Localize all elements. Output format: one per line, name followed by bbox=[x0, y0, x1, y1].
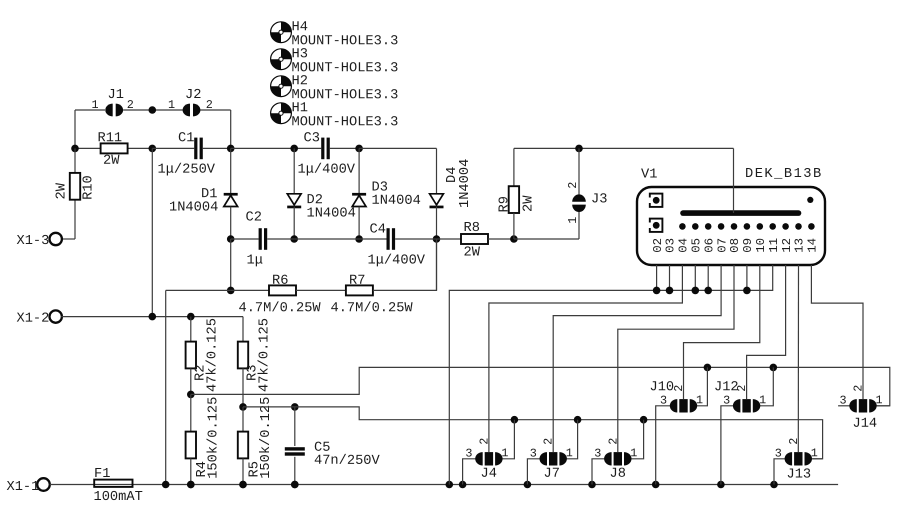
wire C1 to node bbox=[203, 147, 231, 149]
wire D3 node to C4 bbox=[359, 238, 386, 240]
label X1-3 bbox=[16, 234, 49, 249]
wire R2 bottom stub bbox=[190, 368, 192, 394]
junction bottom rail J7.3 bbox=[524, 481, 532, 489]
pin 2 of J7 bbox=[542, 438, 556, 445]
wire J8.1 riser bbox=[631, 420, 644, 459]
resistor R2 bbox=[186, 342, 196, 369]
pin 2 of J3 bbox=[566, 182, 580, 189]
wire pin 02 stub bbox=[656, 265, 658, 290]
solder jumper J10 bbox=[670, 399, 697, 412]
wire R4 bottom stub bbox=[190, 458, 192, 484]
wire J10.1 riser bbox=[697, 367, 708, 405]
wire J12.3 to bottom rail bbox=[721, 406, 734, 485]
resistor R6 bbox=[269, 285, 296, 295]
pin label 11 of V1 bbox=[767, 238, 781, 253]
junction J7.1 riser on lower rail bbox=[574, 416, 582, 424]
pin 3 of J14 bbox=[839, 394, 846, 408]
jumper J1 bbox=[105, 104, 123, 117]
wire pin 09 stub bbox=[746, 265, 748, 290]
label H2 bbox=[291, 74, 307, 89]
svg-text:2: 2 bbox=[542, 438, 556, 445]
svg-text:08: 08 bbox=[728, 238, 742, 253]
V1 common bar bbox=[683, 210, 799, 216]
wire D2 node to D3 node bbox=[294, 238, 359, 240]
wire D4 column upper bbox=[436, 148, 438, 193]
svg-text:100mAT: 100mAT bbox=[93, 490, 142, 505]
svg-text:H2: H2 bbox=[291, 74, 307, 89]
mount hole H4 bbox=[271, 22, 292, 43]
diode D2 bbox=[287, 194, 301, 209]
resistor R10 bbox=[70, 173, 80, 200]
label J2 bbox=[185, 88, 201, 103]
value D1 1N4004 bbox=[169, 201, 218, 216]
svg-text:2: 2 bbox=[206, 98, 213, 112]
svg-text:H4: H4 bbox=[291, 20, 307, 35]
svg-text:J2: J2 bbox=[185, 88, 201, 103]
pin 1 of J7 bbox=[566, 446, 573, 460]
wire C2 to D2 node bbox=[267, 238, 294, 240]
svg-text:1μ/400V: 1μ/400V bbox=[367, 254, 425, 269]
label J12 bbox=[714, 380, 739, 395]
junction J12.1 riser on upper rail bbox=[770, 364, 778, 372]
resistor R8 bbox=[461, 234, 488, 244]
wire R4 top stub bbox=[190, 394, 192, 431]
pin label 12 of V1 bbox=[780, 238, 794, 253]
wire R10 to X1-3 bbox=[61, 238, 75, 240]
wire J2 to right corner bbox=[199, 109, 231, 111]
junction R3/R5 node bbox=[239, 403, 247, 411]
wire left drop to R11 rail bbox=[74, 110, 76, 148]
wire D4 node to R8 bbox=[437, 238, 462, 240]
wire X1-2 rail bbox=[61, 316, 243, 318]
wire pin 10 to J10.2 bbox=[684, 265, 760, 399]
label R2 bbox=[194, 365, 209, 381]
wire R9 node to J3 corner bbox=[514, 238, 579, 240]
svg-text:47n/250V: 47n/250V bbox=[314, 454, 381, 469]
pin label 06 of V1 bbox=[702, 238, 716, 253]
svg-text:05: 05 bbox=[690, 238, 704, 253]
wire R2 top stub bbox=[190, 317, 192, 342]
svg-text:MOUNT-HOLE3.3: MOUNT-HOLE3.3 bbox=[291, 115, 398, 130]
value R6 4.7M/0.25W bbox=[238, 301, 321, 316]
fuse F1 bbox=[94, 480, 132, 487]
junction R9 bottom bbox=[510, 235, 518, 243]
capacitor C1 bbox=[194, 138, 203, 160]
svg-text:1: 1 bbox=[501, 446, 508, 460]
value C5 47n/250V bbox=[314, 454, 381, 469]
value R5 150k/0.125 bbox=[259, 397, 274, 479]
value C4 1u/400V bbox=[367, 254, 425, 269]
junction D2 bottom bbox=[290, 235, 298, 243]
svg-text:J10: J10 bbox=[649, 380, 674, 395]
pin 2 of J8 bbox=[606, 438, 620, 445]
label H2 MOUNT-HOLE3.3 bbox=[291, 88, 398, 103]
mount hole H2 bbox=[271, 76, 292, 97]
label C2 bbox=[245, 211, 261, 226]
label R5 bbox=[248, 461, 263, 477]
svg-text:C4: C4 bbox=[369, 223, 385, 238]
svg-text:3: 3 bbox=[530, 447, 537, 461]
pin label 14 of V1 bbox=[806, 238, 820, 253]
value F1 100mAT bbox=[93, 490, 142, 505]
wire pin rail under V1 bbox=[449, 265, 772, 485]
junction C5 bottom bbox=[291, 481, 299, 489]
svg-text:1: 1 bbox=[875, 393, 882, 407]
wire node down to X1-2 rail bbox=[151, 148, 153, 316]
svg-text:1: 1 bbox=[566, 217, 580, 224]
junction J8.1 riser on lower rail bbox=[640, 416, 648, 424]
svg-text:R7: R7 bbox=[349, 274, 365, 289]
pin 1 of J10 bbox=[696, 393, 703, 407]
svg-text:V1: V1 bbox=[641, 168, 657, 183]
svg-text:2: 2 bbox=[787, 438, 801, 445]
svg-text:47k/0.125: 47k/0.125 bbox=[206, 318, 221, 392]
svg-text:14: 14 bbox=[806, 238, 820, 253]
svg-text:J7: J7 bbox=[543, 467, 559, 482]
label H1 bbox=[291, 101, 307, 116]
svg-text:2: 2 bbox=[127, 98, 134, 112]
pin 1 of J3 bbox=[566, 217, 580, 224]
junction R11 rail left bbox=[71, 145, 79, 153]
value C2 1u bbox=[246, 254, 262, 269]
svg-text:04: 04 bbox=[677, 238, 691, 253]
mount hole H1 bbox=[271, 103, 292, 124]
svg-text:1: 1 bbox=[811, 446, 818, 460]
wire D2 column lower bbox=[293, 207, 295, 239]
wire pin 04 to J4.2 bbox=[489, 265, 683, 452]
svg-text:03: 03 bbox=[664, 238, 678, 253]
IC V1 DEK_B13B outline bbox=[637, 187, 825, 265]
wire pin 12 to J12.2 bbox=[747, 265, 786, 399]
label H3 MOUNT-HOLE3.3 bbox=[291, 61, 398, 76]
resistor R3 bbox=[238, 342, 248, 369]
label R11 bbox=[97, 131, 122, 146]
svg-text:DEK_B13B: DEK_B13B bbox=[745, 167, 823, 182]
svg-text:07: 07 bbox=[715, 238, 729, 253]
value R11 2W bbox=[103, 154, 120, 169]
pin 1 of J8 bbox=[630, 446, 637, 460]
solder jumper J8 bbox=[604, 452, 631, 465]
wire D4 column lower bbox=[436, 207, 438, 239]
wire J4.3 to bottom rail bbox=[463, 459, 476, 485]
svg-text:J12: J12 bbox=[714, 380, 739, 395]
svg-text:3: 3 bbox=[594, 447, 601, 461]
svg-text:C3: C3 bbox=[303, 131, 319, 146]
wire J2.2 drop to C1 rail bbox=[230, 110, 232, 148]
label R6 bbox=[272, 274, 288, 289]
wire R6 rail to R6 bbox=[231, 289, 269, 291]
resistor R5 bbox=[238, 432, 248, 459]
value R4 150k/0.125 bbox=[207, 397, 222, 479]
wire J7.3 to bottom rail bbox=[527, 459, 540, 485]
svg-text:1μ/400V: 1μ/400V bbox=[297, 163, 355, 178]
wire J8.3 to bottom rail bbox=[592, 459, 605, 485]
svg-text:150k/0.125: 150k/0.125 bbox=[259, 397, 274, 479]
label DEK_B13B bbox=[745, 167, 823, 182]
svg-text:02: 02 bbox=[651, 238, 665, 253]
wire J14.1 stub bbox=[876, 405, 890, 407]
wire D1 column upper bbox=[230, 148, 232, 193]
pin 1 of J1 bbox=[91, 98, 98, 112]
label R8 bbox=[463, 221, 479, 236]
label D1 bbox=[201, 187, 217, 202]
wire J14.3 stub bbox=[838, 405, 850, 407]
svg-text:1: 1 bbox=[759, 393, 766, 407]
resistor R9 bbox=[509, 186, 519, 213]
label C1 bbox=[178, 131, 194, 146]
junction bottom rail R6 rail drop bbox=[162, 481, 170, 489]
pin label 04 of V1 bbox=[677, 238, 691, 253]
junction X1-2 node bbox=[149, 313, 157, 321]
label V1 bbox=[641, 168, 657, 183]
svg-text:J3: J3 bbox=[591, 192, 607, 207]
junction R5 bottom bbox=[239, 481, 247, 489]
wire pin 03 stub bbox=[669, 265, 671, 290]
label D4 bbox=[445, 167, 460, 183]
svg-text:1N4004: 1N4004 bbox=[458, 159, 473, 208]
wire C4 to D4 node bbox=[395, 238, 436, 240]
svg-text:11: 11 bbox=[767, 238, 781, 253]
wire R11 rail bbox=[75, 147, 152, 149]
junction bottom rail pin rail drop bbox=[446, 481, 454, 489]
junction pin 02 on rail bbox=[653, 287, 661, 295]
pin 2 of J12 bbox=[735, 385, 749, 392]
label R4 bbox=[195, 461, 210, 477]
label C3 bbox=[303, 131, 319, 146]
svg-text:2W: 2W bbox=[55, 182, 70, 199]
label D3 bbox=[371, 181, 387, 196]
wire J3 bottom riser bbox=[578, 212, 580, 240]
mount hole H3 bbox=[271, 49, 292, 70]
junction bottom rail J4.3 bbox=[459, 481, 467, 489]
svg-text:3: 3 bbox=[775, 447, 782, 461]
value D3 1N4004 bbox=[371, 194, 420, 209]
svg-text:R9: R9 bbox=[498, 196, 513, 212]
capacitor C3 bbox=[321, 138, 330, 160]
junction R11 rail right bbox=[149, 145, 157, 153]
junction D2 top bbox=[290, 145, 298, 153]
svg-text:3: 3 bbox=[465, 447, 472, 461]
wire lower step rail bbox=[243, 407, 823, 459]
junction R2 top node bbox=[187, 313, 195, 321]
svg-text:13: 13 bbox=[793, 238, 807, 253]
pin label 05 of V1 bbox=[690, 238, 704, 253]
svg-text:1: 1 bbox=[566, 446, 573, 460]
wire left drop from R6 rail to bottom rail bbox=[165, 290, 167, 484]
pin label 07 of V1 bbox=[715, 238, 729, 253]
svg-text:R11: R11 bbox=[97, 131, 122, 146]
junction R4 bottom bbox=[187, 481, 195, 489]
junction pin 06 on rail bbox=[704, 287, 712, 295]
label X1-2 bbox=[16, 312, 49, 327]
svg-text:R8: R8 bbox=[463, 221, 479, 236]
junction bottom rail J8.3 bbox=[588, 481, 596, 489]
wire D3 column lower bbox=[358, 207, 360, 239]
junction pin 03 on rail bbox=[666, 287, 674, 295]
pin 3 of J8 bbox=[594, 447, 601, 461]
diode D3 bbox=[352, 193, 366, 207]
svg-text:3: 3 bbox=[723, 394, 730, 408]
pin 3 of J12 bbox=[723, 394, 730, 408]
wire D3 node to D4 corner bbox=[359, 147, 436, 149]
wire R11 left node down to R10 bbox=[74, 148, 76, 239]
pin 1 of J13 bbox=[811, 446, 818, 460]
wire D1 node to C2 bbox=[231, 238, 259, 240]
svg-text:2W: 2W bbox=[103, 154, 120, 169]
pin 3 of J7 bbox=[530, 447, 537, 461]
wire R3 bottom stub bbox=[242, 368, 244, 407]
svg-text:2: 2 bbox=[566, 182, 580, 189]
svg-text:J8: J8 bbox=[609, 467, 625, 482]
capacitor C4 bbox=[387, 228, 396, 250]
svg-text:09: 09 bbox=[741, 238, 755, 253]
junction J4.1 riser on lower rail bbox=[511, 416, 519, 424]
wire D1 node down to R6 rail bbox=[230, 239, 232, 290]
wire J4.1 riser bbox=[502, 420, 515, 459]
svg-text:X1-1: X1-1 bbox=[6, 480, 39, 495]
label H4 bbox=[291, 20, 307, 35]
label J14 bbox=[852, 417, 877, 432]
svg-text:2: 2 bbox=[606, 438, 620, 445]
junction R2/R4 node bbox=[187, 391, 195, 399]
svg-text:10: 10 bbox=[754, 238, 768, 253]
label R3 bbox=[246, 365, 261, 381]
capacitor C5 bbox=[285, 447, 305, 455]
wire C5 top stub bbox=[294, 407, 296, 446]
value D4 1N4004 bbox=[458, 159, 473, 208]
pin label 08 of V1 bbox=[728, 238, 742, 253]
junction D3 top bbox=[355, 145, 363, 153]
label R10 bbox=[82, 175, 97, 200]
wire J12.1 riser bbox=[760, 367, 774, 405]
pin 1 of J14 bbox=[875, 393, 882, 407]
solder jumper J14 bbox=[849, 399, 876, 412]
pin label 02 of V1 bbox=[651, 238, 665, 253]
junction bottom rail C5 bbox=[291, 481, 299, 489]
junction node J1.2/J2.1 bbox=[149, 106, 157, 114]
jumper J3 bbox=[572, 194, 586, 212]
svg-text:J14: J14 bbox=[852, 417, 877, 432]
svg-text:C2: C2 bbox=[245, 211, 261, 226]
svg-text:2: 2 bbox=[477, 438, 491, 445]
junction bottom rail R5 bbox=[239, 481, 247, 489]
svg-text:1μ: 1μ bbox=[246, 254, 262, 269]
svg-text:1N4004: 1N4004 bbox=[371, 194, 420, 209]
wire C5 bottom stub bbox=[294, 457, 296, 485]
wire top rail left J1 J2 bbox=[75, 109, 105, 111]
capacitor C2 bbox=[259, 228, 268, 250]
wire R9 top riser bbox=[513, 148, 515, 186]
wire D2 column upper bbox=[293, 148, 295, 193]
svg-text:J13: J13 bbox=[786, 468, 811, 483]
svg-text:1N4004: 1N4004 bbox=[306, 207, 355, 222]
label J8 bbox=[609, 467, 625, 482]
terminal X1-2 bbox=[50, 310, 62, 322]
label J4 bbox=[480, 467, 496, 482]
svg-text:F1: F1 bbox=[94, 467, 110, 482]
svg-text:J4: J4 bbox=[480, 467, 496, 482]
label R9 bbox=[498, 196, 513, 212]
label H4 MOUNT-HOLE3.3 bbox=[291, 34, 398, 49]
svg-text:H1: H1 bbox=[291, 101, 307, 116]
jumper J2 bbox=[183, 104, 201, 117]
pin 2 of J13 bbox=[787, 438, 801, 445]
wire top rail corner into V1 bar bbox=[733, 148, 735, 213]
pin 2 of J14 bbox=[852, 385, 866, 392]
wire pin 06 stub bbox=[707, 265, 709, 290]
svg-text:X1-2: X1-2 bbox=[16, 312, 49, 327]
wire pin 13 to J13.2 bbox=[797, 265, 799, 452]
pad square pin 02 lower bbox=[648, 219, 662, 232]
wire J7.1 riser bbox=[566, 420, 577, 459]
junction pin 05 on rail bbox=[692, 287, 700, 295]
svg-text:1: 1 bbox=[630, 446, 637, 460]
wire D3 column upper bbox=[358, 148, 360, 193]
solder jumper J4 bbox=[475, 452, 502, 465]
pin label 13 of V1 bbox=[793, 238, 807, 253]
pin 2 of J2 bbox=[206, 98, 213, 112]
wire D1 column lower bbox=[230, 207, 232, 239]
label H1 MOUNT-HOLE3.3 bbox=[291, 115, 398, 130]
label D2 bbox=[306, 193, 322, 208]
pin 1 of J2 bbox=[168, 98, 175, 112]
svg-text:47k/0.125: 47k/0.125 bbox=[258, 318, 273, 392]
terminal X1-3 bbox=[50, 233, 62, 245]
svg-text:1: 1 bbox=[91, 98, 98, 112]
svg-text:C1: C1 bbox=[178, 131, 194, 146]
pin 2 of J1 bbox=[127, 98, 134, 112]
wire R7 to D4 column riser bbox=[373, 239, 437, 290]
value R9 2W bbox=[522, 195, 537, 212]
solder jumper J13 bbox=[785, 452, 812, 465]
junction J3 top bbox=[575, 145, 583, 153]
svg-text:X1-3: X1-3 bbox=[16, 234, 49, 249]
solder jumper J12 bbox=[733, 399, 760, 412]
wire J1-J2 bbox=[123, 109, 184, 111]
wire J13.3 to bottom rail bbox=[774, 459, 785, 485]
wire pin 07 to J7.2 bbox=[553, 265, 721, 452]
label C5 bbox=[314, 441, 330, 456]
wire pin 14 to J14.2 bbox=[811, 265, 863, 399]
terminal X1-1 bbox=[37, 478, 50, 491]
junction D3 bottom bbox=[355, 235, 363, 243]
value R8 2W bbox=[463, 246, 480, 261]
junction C5 top node bbox=[291, 403, 299, 411]
svg-text:R10: R10 bbox=[82, 175, 97, 200]
value R3 47k/0.125 bbox=[258, 318, 273, 392]
diode D4 bbox=[430, 194, 444, 209]
label R7 bbox=[349, 274, 365, 289]
svg-text:1: 1 bbox=[696, 393, 703, 407]
wire R6 rail corner drop bbox=[166, 289, 231, 291]
wire bottom rail bbox=[50, 484, 838, 486]
pin 3 of J4 bbox=[465, 447, 472, 461]
resistor R4 bbox=[186, 432, 196, 459]
V1 top right dot bbox=[807, 197, 813, 203]
svg-text:R6: R6 bbox=[272, 274, 288, 289]
value R2 47k/0.125 bbox=[206, 318, 221, 392]
label X1-1 bbox=[6, 480, 39, 495]
svg-text:2W: 2W bbox=[463, 246, 480, 261]
label J7 bbox=[543, 467, 559, 482]
wire R11 node to C1 bbox=[152, 147, 194, 149]
label J3 bbox=[591, 192, 607, 207]
junction J10.1 riser on upper rail bbox=[704, 364, 712, 372]
V1 pad dots pins 04-14 bbox=[679, 223, 815, 230]
junction pin 09 on rail bbox=[743, 287, 751, 295]
value C1 1u/250V bbox=[157, 163, 215, 178]
pad square pin 02 upper bbox=[648, 194, 662, 207]
